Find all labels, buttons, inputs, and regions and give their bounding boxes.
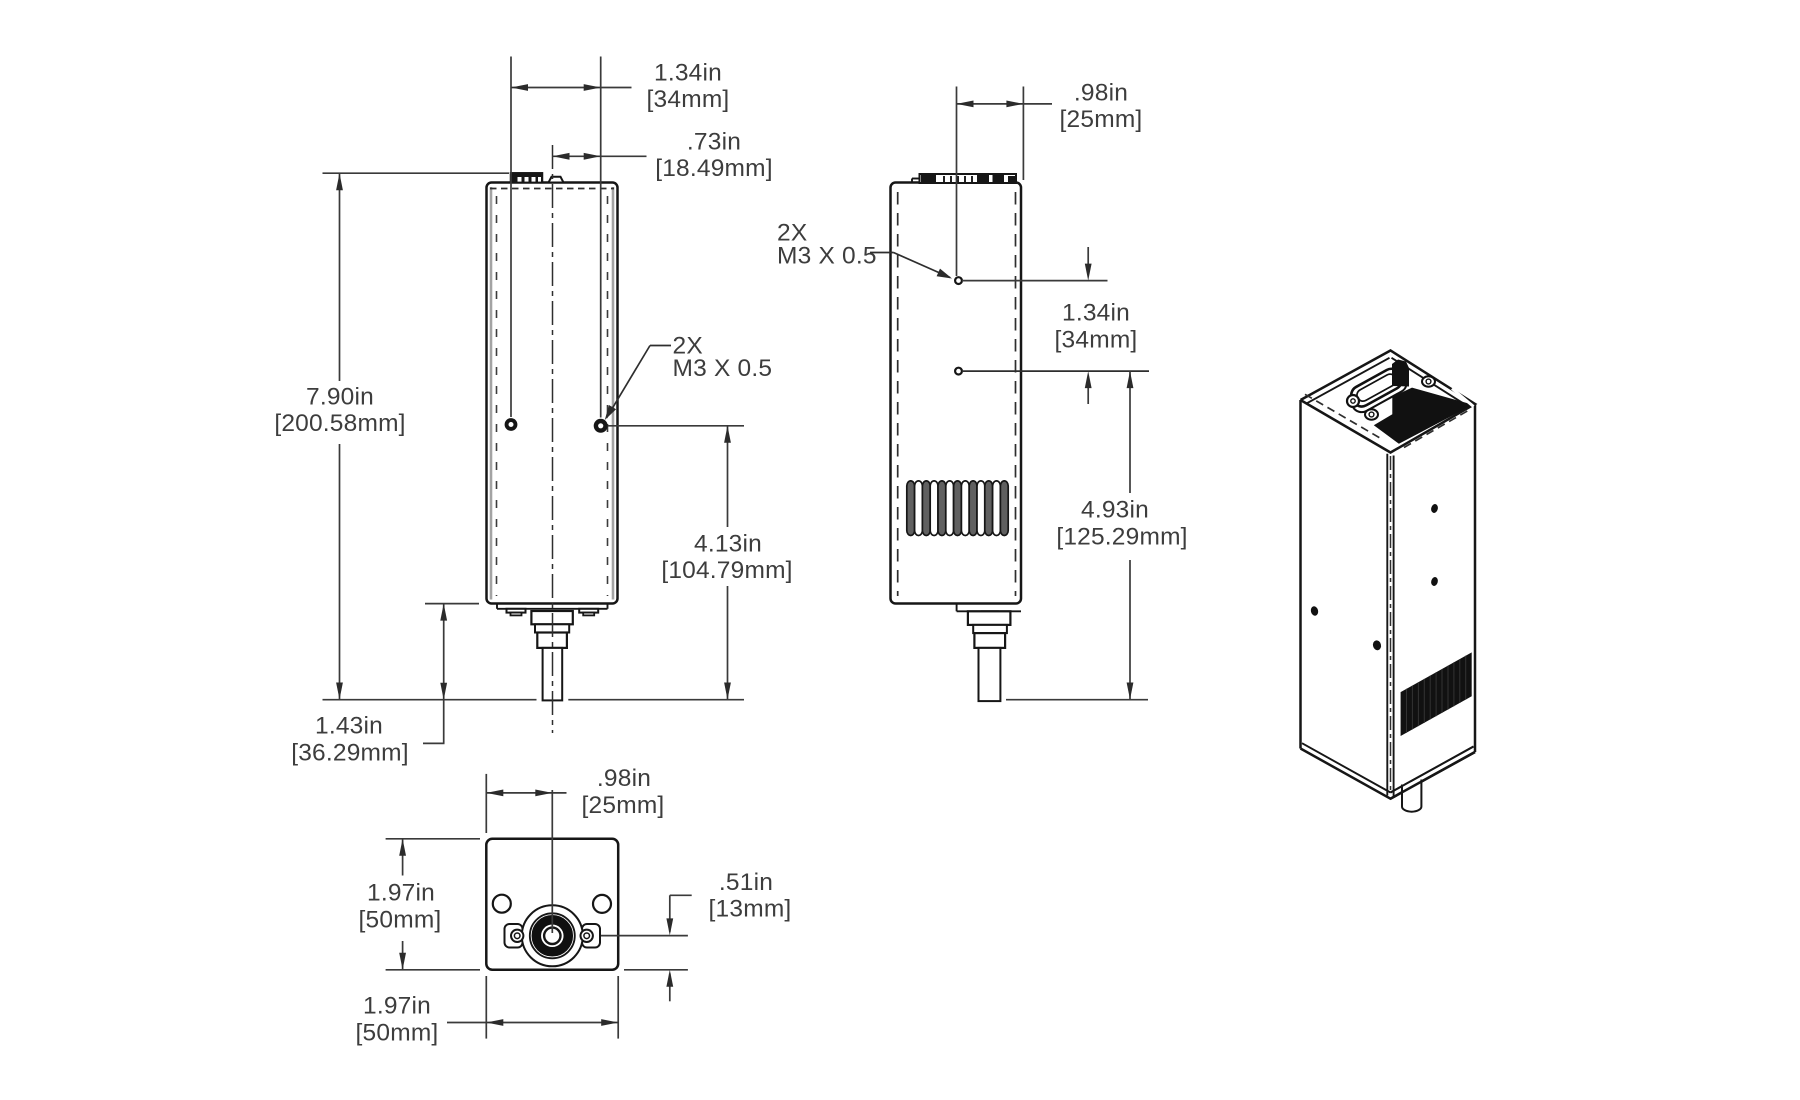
svg-text:1.34in: 1.34in: [1062, 300, 1130, 327]
svg-text:M3 X 0.5: M3 X 0.5: [777, 243, 877, 270]
svg-text:[50mm]: [50mm]: [356, 1020, 439, 1047]
svg-text:1.43in: 1.43in: [315, 713, 383, 740]
svg-text:[200.58mm]: [200.58mm]: [274, 410, 405, 437]
svg-text:1.97in: 1.97in: [363, 993, 431, 1020]
svg-text:[25mm]: [25mm]: [582, 792, 665, 819]
svg-text:[50mm]: [50mm]: [359, 907, 442, 934]
svg-text:[34mm]: [34mm]: [1055, 327, 1138, 354]
svg-text:[34mm]: [34mm]: [647, 86, 730, 113]
svg-text:[104.79mm]: [104.79mm]: [661, 557, 792, 584]
svg-text:[125.29mm]: [125.29mm]: [1056, 524, 1187, 551]
svg-text:.98in: .98in: [597, 765, 651, 792]
svg-text:.73in: .73in: [687, 129, 741, 156]
svg-text:7.90in: 7.90in: [306, 384, 374, 411]
svg-text:[36.29mm]: [36.29mm]: [291, 740, 409, 767]
svg-text:[18.49mm]: [18.49mm]: [655, 155, 773, 182]
svg-text:M3 X 0.5: M3 X 0.5: [673, 355, 773, 382]
svg-text:1.97in: 1.97in: [367, 880, 435, 907]
svg-text:4.13in: 4.13in: [694, 531, 762, 558]
svg-text:.98in: .98in: [1074, 80, 1128, 107]
svg-text:.51in: .51in: [719, 869, 773, 896]
svg-text:[13mm]: [13mm]: [709, 896, 792, 923]
svg-text:4.93in: 4.93in: [1081, 497, 1149, 524]
svg-text:[25mm]: [25mm]: [1060, 106, 1143, 133]
svg-text:1.34in: 1.34in: [654, 60, 722, 87]
